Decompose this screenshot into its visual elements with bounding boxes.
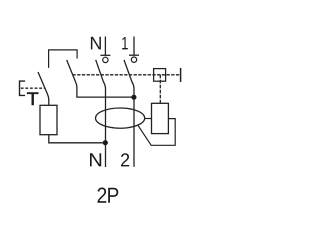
wire pole 1 conductor [133, 89, 135, 167]
supply line 1 with terminal crossbar [129, 37, 139, 56]
CT winding wire A [145, 118, 152, 120]
terminal bar (right anchor) [180, 68, 182, 82]
label T [27, 93, 38, 105]
toroid current transformer [96, 108, 145, 128]
fixed contact N [103, 57, 108, 62]
test contact blade 2 (linked) [67, 60, 77, 88]
trip relay coil [152, 103, 169, 133]
wire N pole conductor [105, 89, 107, 168]
fixed contact pole 1 [131, 57, 136, 62]
switch blade N pole [96, 60, 106, 89]
test circuit bracket wire [49, 50, 78, 68]
trip linkage dashed vertical [159, 75, 161, 104]
junction dot N pole [103, 140, 108, 145]
label N (bottom) [90, 153, 101, 166]
supply line N with terminal crossbar [100, 37, 110, 56]
actuator dashed link [21, 87, 45, 89]
junction dot pole 1 [131, 95, 136, 100]
test wire upper (blade2 to pole1) [77, 88, 134, 98]
label 1 (top incoming line) [122, 37, 128, 49]
mechanical linkage dashed line [73, 74, 181, 76]
test contact blade (T switch) [38, 72, 49, 105]
mechanism square [154, 69, 166, 82]
label 2 (bottom) [121, 153, 129, 166]
switch blade pole 1 [124, 60, 134, 89]
label N (top incoming neutral) [91, 37, 101, 50]
CT winding wire B [138, 119, 175, 146]
caption 2P - glyph 2 [98, 188, 107, 203]
test wire lower (resistor to N pole) [49, 135, 106, 143]
test resistor [40, 105, 57, 134]
caption 2P - glyph P [108, 188, 118, 203]
test button actuator bracket [20, 81, 26, 95]
